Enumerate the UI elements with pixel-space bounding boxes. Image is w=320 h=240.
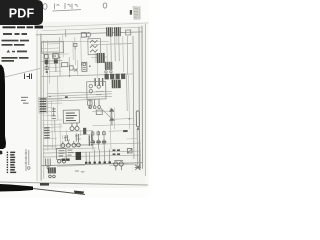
notes paragraph row 6 bbox=[2, 60, 15, 62]
frame bottom border bbox=[41, 163, 142, 166]
wire mesh lower bbox=[54, 107, 115, 150]
fuse F1 row bbox=[62, 158, 70, 161]
resistor R4 trio bbox=[95, 78, 103, 86]
bottom dark segment bbox=[40, 183, 49, 186]
transistor Q1 chain A bbox=[44, 54, 48, 73]
capacitor C4 stack bbox=[44, 128, 50, 138]
legend row 7 bbox=[7, 167, 16, 169]
notes symbol row bbox=[7, 50, 28, 53]
diode D4 marks bbox=[64, 133, 81, 142]
rectifier D2 striped row bbox=[105, 74, 126, 80]
transistor Q3 pairs below U2 bbox=[89, 100, 101, 109]
legend row 3 bbox=[7, 157, 16, 159]
right inner bus bbox=[132, 36, 136, 159]
margin note dashes bbox=[21, 97, 29, 104]
transistor Q1 chain B bbox=[53, 54, 59, 72]
bottom drop wires bbox=[93, 130, 105, 149]
contactor K3 box bbox=[56, 148, 66, 163]
transformer T2 bbox=[97, 53, 105, 63]
mid bus lines bbox=[42, 91, 112, 101]
transformer T1 winding A bbox=[106, 27, 113, 36]
wire h y57 bbox=[41, 60, 62, 63]
frame left border bbox=[38, 34, 43, 181]
input box band bbox=[41, 42, 63, 53]
notes paragraph row 5 bbox=[2, 57, 29, 59]
resistor R7 pair above U1 bbox=[88, 101, 93, 109]
wire v x70 bbox=[68, 57, 70, 76]
choke L1 bbox=[136, 111, 139, 130]
frame right border double line bbox=[137, 26, 145, 170]
page top edge bbox=[42, 23, 148, 27]
IC U2 box bbox=[87, 81, 106, 99]
terminal strip X1 bbox=[112, 150, 120, 154]
legend row 1 bbox=[7, 152, 16, 154]
capacitor C3 chain bbox=[52, 107, 56, 118]
annotation word ty bbox=[55, 4, 60, 10]
bottom tear line bbox=[33, 189, 85, 195]
network R6 cluster bbox=[96, 107, 112, 119]
tall rail x48 bbox=[46, 41, 50, 151]
left edge black bar bbox=[0, 65, 6, 150]
transistor Q2 quad bbox=[61, 141, 80, 147]
crease line bbox=[5, 69, 40, 78]
wire v x67 top bbox=[65, 29, 67, 37]
annotation circle 2 bbox=[103, 3, 107, 8]
valve symbols V1 row bbox=[91, 132, 105, 135]
page bottom edge bbox=[0, 182, 148, 185]
transistor Q4 pair bbox=[70, 123, 79, 131]
legend row 6 bbox=[7, 164, 15, 166]
wire v x136 bottom right bbox=[137, 129, 140, 169]
switch S2 bbox=[127, 148, 132, 153]
diode D3 stack bbox=[110, 108, 114, 125]
junction dots bbox=[48, 35, 130, 121]
wire h y45 right bbox=[91, 43, 132, 44]
corner smudge top right bbox=[130, 6, 141, 20]
frame top border bbox=[36, 32, 143, 35]
wire mesh upper bbox=[49, 36, 130, 130]
notes heading row 1 bbox=[3, 26, 44, 29]
svg-text:PDF: PDF bbox=[9, 7, 35, 21]
wire rungs lower bbox=[43, 131, 138, 167]
shading mid left density bbox=[40, 36, 64, 106]
notes heading row 2 bbox=[3, 33, 27, 35]
bus leg feet bbox=[85, 161, 111, 163]
handwriting group top bbox=[43, 3, 107, 11]
transformer T3 bbox=[112, 80, 121, 89]
wire v x127 bbox=[126, 36, 129, 111]
page right edge bbox=[145, 24, 147, 176]
sensor B1 bbox=[73, 43, 77, 49]
page left edge bbox=[36, 30, 38, 181]
legend row 4 bbox=[7, 159, 15, 161]
resistor R5 box bbox=[83, 128, 92, 146]
legend row 2 bbox=[7, 154, 15, 156]
notes paragraph row 3 bbox=[2, 40, 30, 42]
wire v x60 bbox=[58, 37, 61, 76]
shading right column bbox=[131, 26, 146, 172]
relay box K1 bbox=[88, 39, 101, 55]
inner left rail bbox=[41, 41, 46, 179]
resistor R2 bbox=[61, 63, 68, 67]
bridge BR1 bbox=[105, 62, 113, 73]
transistor Q5 pair bottom right bbox=[114, 161, 124, 171]
relay D1 block bbox=[82, 62, 91, 71]
page top inner rule bbox=[42, 27, 143, 30]
relay K2 block bbox=[75, 152, 81, 160]
legend row 9 bbox=[7, 172, 17, 174]
wire h y76 bbox=[42, 74, 133, 77]
schematic components group bbox=[37, 27, 141, 178]
striped motor symbols row bbox=[90, 140, 106, 145]
right margin lighter bbox=[146, 24, 149, 188]
fine rung mesh A bbox=[41, 44, 71, 125]
shading bottom bus band bbox=[41, 147, 141, 166]
legend list bbox=[7, 152, 17, 174]
transformer T1 winding B bbox=[114, 27, 121, 36]
schematic frame group (slightly skewed scan) bbox=[36, 26, 146, 181]
annotation word koto bbox=[53, 3, 82, 11]
driver cluster marks bbox=[67, 150, 73, 155]
legend row 5 bbox=[7, 162, 16, 164]
resistor R3 pair bbox=[69, 66, 77, 72]
margin wire pair bbox=[25, 149, 30, 171]
connector J1 pin ladder bbox=[39, 97, 47, 113]
lamp P1 top bbox=[81, 32, 91, 37]
bus legs bbox=[86, 149, 110, 163]
terminal box X3 bbox=[126, 30, 131, 35]
annotation circle 1 bbox=[43, 4, 47, 10]
terminal X4 crossed bbox=[135, 165, 141, 170]
switch S1 cluster bbox=[46, 158, 51, 168]
bus tap dash bbox=[65, 96, 68, 98]
bottom black wedge bbox=[0, 184, 33, 192]
IC U1 box bbox=[63, 110, 79, 123]
left margin lighter bbox=[0, 24, 37, 188]
legend row 8 bbox=[7, 169, 15, 171]
test point dashes bbox=[75, 171, 85, 172]
fine vertical mesh B bbox=[63, 34, 118, 80]
transformer drop wires bbox=[111, 36, 119, 61]
PDF badge bbox=[0, 0, 43, 25]
wire rungs upper bbox=[41, 40, 137, 136]
connector J2 block bbox=[48, 167, 56, 177]
center drop verticals bbox=[52, 100, 61, 150]
notes paragraph row 4 bbox=[2, 44, 25, 46]
margin glyph bbox=[25, 74, 32, 80]
scanned page background bbox=[0, 22, 149, 188]
terminal X2 right bbox=[123, 130, 127, 132]
bottom bus lines bbox=[43, 143, 141, 157]
wire h y131 bbox=[43, 131, 93, 132]
bottom small blob bbox=[74, 191, 84, 194]
wire h y120 right bbox=[112, 117, 133, 120]
left edge notch bbox=[0, 151, 2, 155]
